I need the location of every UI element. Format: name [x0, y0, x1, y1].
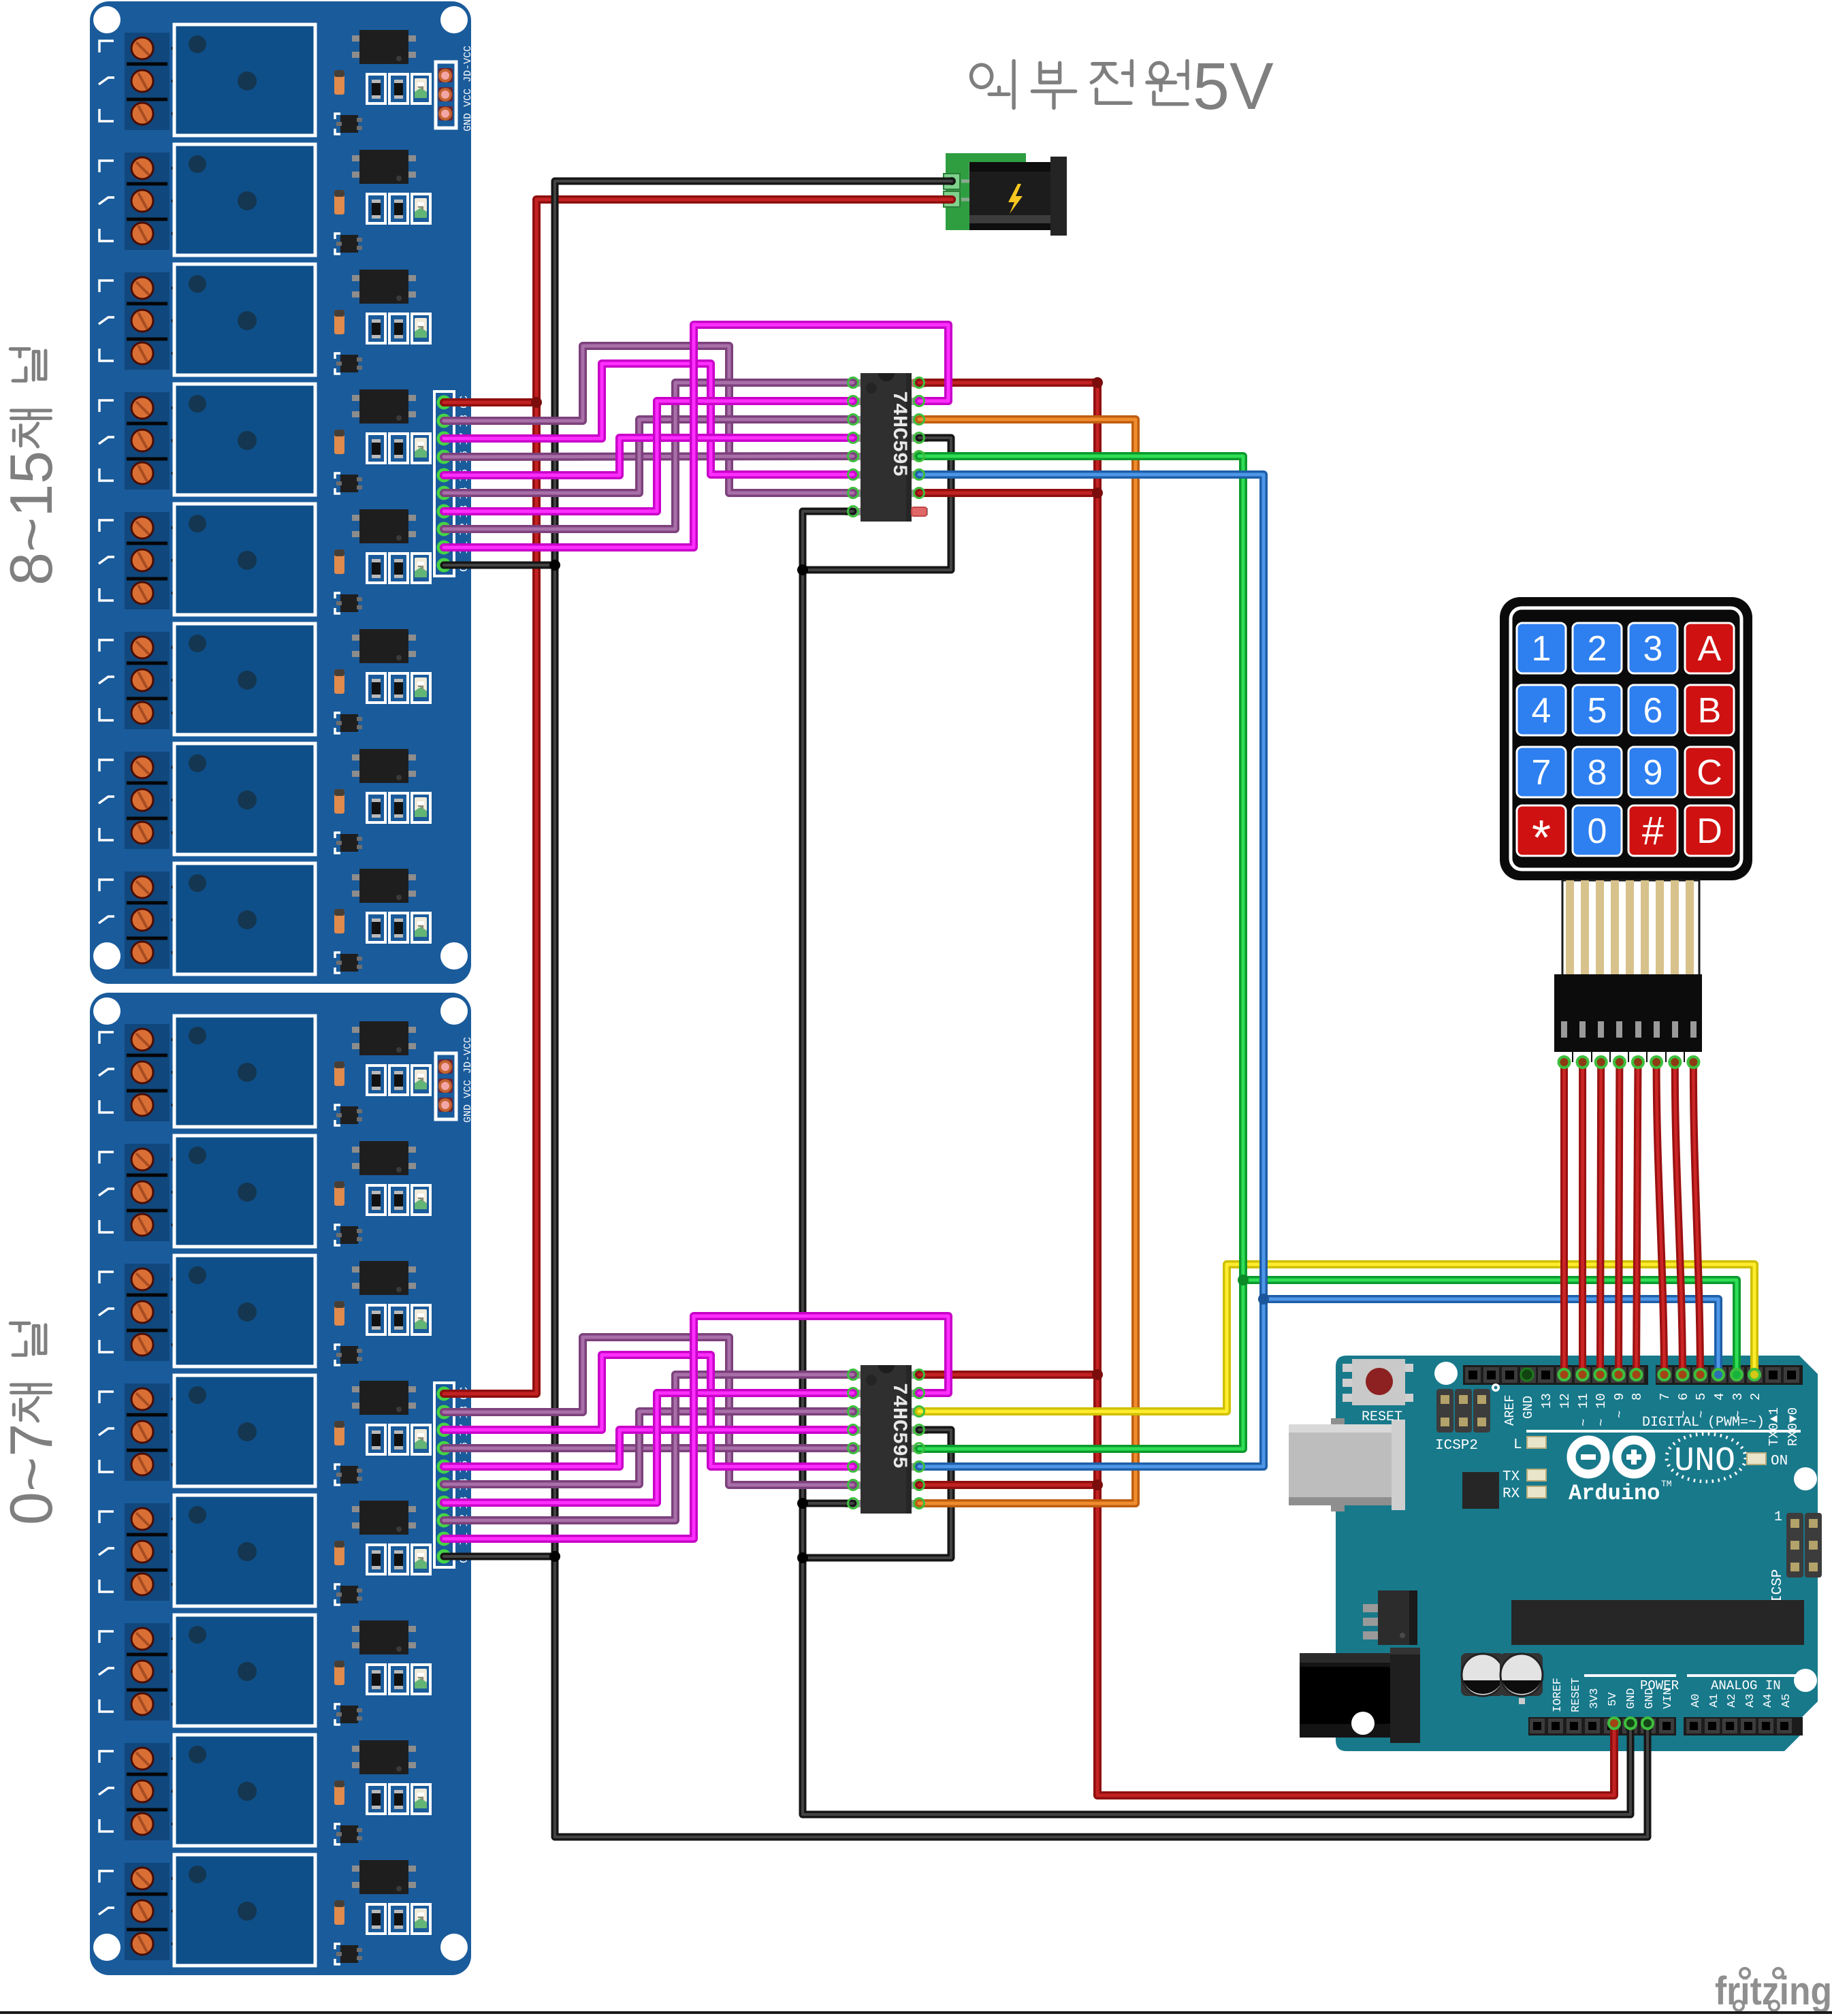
svg-text:4: 4: [1712, 1393, 1727, 1401]
svg-text:~: ~: [1577, 1419, 1592, 1426]
svg-text:3V3: 3V3: [1588, 1688, 1601, 1709]
shift register U1 74HC595 (bottom): [845, 1365, 928, 1514]
ICSP2 header: [1435, 1383, 1500, 1454]
wire net IC ground (black) shift registers to Arduino GND: [803, 438, 1630, 1814]
wire K2 IN8 to U2 Q7 (purple): [444, 346, 853, 493]
LED L TX RX: [1502, 1437, 1546, 1502]
wire net GND rail (black) from jack to relay GND pins and Arduino GND: [444, 181, 1648, 1837]
svg-text:A0: A0: [1690, 1694, 1703, 1708]
svg-text:11: 11: [1576, 1393, 1591, 1409]
svg-text:12: 12: [1558, 1393, 1573, 1409]
Arduino UNO board: [1289, 1356, 1822, 1751]
wire K1 IN3 to U1 Q2 (magenta): [444, 1393, 853, 1503]
wire serial cascade U1 Q7' to U2 DS (orange): [919, 419, 1136, 1503]
svg-text:~: ~: [1594, 1419, 1609, 1426]
wire K1 IN5 to U1 Q4 (magenta): [444, 1430, 853, 1467]
pin connection rings: [848, 378, 925, 1509]
bottom border line: [0, 2011, 1832, 2014]
svg-text:ON: ON: [1771, 1454, 1788, 1469]
svg-text:GND: GND: [1521, 1396, 1536, 1419]
keypad connector pin rings: [1559, 1057, 1699, 1068]
analog labels: [1687, 1676, 1803, 1708]
keypad pin connector: [1554, 974, 1702, 1062]
svg-text:ICSP2: ICSP2: [1435, 1438, 1478, 1454]
svg-text:DIGITAL (PWM=~): DIGITAL (PWM=~): [1642, 1415, 1765, 1430]
svg-text:ANALOG IN: ANALOG IN: [1711, 1678, 1781, 1693]
keypad wire 8 to Arduino pin5 (red): [1693, 1062, 1700, 1375]
svg-text:2: 2: [1748, 1393, 1763, 1401]
relay module board K1 (0~7 channel): [90, 993, 474, 1975]
title external power 5V (Korean): [971, 61, 1187, 108]
wire K1 IN2 to U1 Q1 (purple): [444, 1375, 853, 1520]
svg-text:8~15: 8~15: [0, 451, 65, 586]
keypad wire 5 to Arduino pin8 (red): [1636, 1062, 1638, 1375]
capacitor C2: [1500, 1653, 1543, 1704]
svg-text:3: 3: [1731, 1393, 1746, 1401]
svg-text:#: #: [1642, 809, 1664, 853]
keypad wire 1 to Arduino pin12 (red): [1560, 1062, 1568, 1375]
svg-text:1: 1: [1774, 1509, 1782, 1525]
junction IC VCC U1 pin10: [1092, 1479, 1103, 1490]
svg-text:~: ~: [1613, 1411, 1628, 1418]
keypad wire 2 to Arduino pin11 (red): [1579, 1062, 1586, 1375]
junction IC ground U2: [797, 564, 808, 575]
shift register U2 74HC595 (top): [845, 373, 928, 522]
wire K1 IN4 to U1 Q3 (purple): [444, 1411, 853, 1484]
svg-text:B: B: [1698, 691, 1722, 731]
svg-text:RESET: RESET: [1570, 1678, 1583, 1712]
svg-text:A1: A1: [1708, 1694, 1721, 1708]
junction GND rail / relay K2 GND: [549, 560, 560, 571]
svg-text:AREF: AREF: [1502, 1394, 1517, 1426]
svg-text:8: 8: [1630, 1393, 1645, 1401]
svg-text:Arduino: Arduino: [1569, 1481, 1660, 1506]
Arduino pin rings: [1559, 1369, 1761, 1729]
svg-text:8: 8: [1588, 753, 1607, 793]
svg-text:9: 9: [1612, 1393, 1627, 1401]
USB connector: [1289, 1418, 1405, 1511]
capacitor C1: [1461, 1653, 1504, 1696]
svg-text:10: 10: [1594, 1393, 1609, 1409]
power labels: [1552, 1676, 1679, 1712]
svg-text:7: 7: [1658, 1393, 1673, 1401]
svg-text:5V: 5V: [1607, 1692, 1620, 1706]
label 0~7 channel (Korean): [10, 1324, 50, 1421]
svg-text:L: L: [1513, 1437, 1522, 1453]
wire K2 IN5 to U2 Q4 (magenta): [444, 438, 853, 475]
wire K2 IN1 to U2 Q0 loop (magenta): [444, 325, 948, 547]
svg-text:GND: GND: [1625, 1688, 1638, 1709]
svg-text:9: 9: [1643, 753, 1663, 793]
svg-text:A2: A2: [1726, 1694, 1739, 1708]
svg-text:6: 6: [1643, 691, 1663, 731]
svg-text:A3: A3: [1744, 1694, 1757, 1708]
keypad wire 7 to Arduino pin6 (red): [1675, 1062, 1682, 1375]
digital header strip 2: [1656, 1365, 1803, 1385]
svg-text:5V: 5V: [1193, 49, 1274, 123]
junction IC VCC U2 pin16: [1092, 377, 1103, 388]
wire K1 IN1 to U1 Q0 loop (magenta): [444, 1316, 948, 1539]
svg-text:*: *: [1532, 811, 1551, 865]
svg-text:6: 6: [1676, 1393, 1691, 1401]
keypad wire 4 to Arduino pin9 (red): [1618, 1062, 1620, 1375]
svg-text:13: 13: [1539, 1393, 1554, 1409]
power barrel jack: [1300, 1648, 1420, 1743]
svg-text:TX0▲1: TX0▲1: [1767, 1407, 1782, 1446]
voltage regulator: [1363, 1590, 1417, 1645]
svg-text:1: 1: [1532, 629, 1552, 669]
wire K2 IN3 to U2 Q2 (magenta): [444, 401, 853, 511]
wire clock Arduino pin4 to both ICs SH_CP (blue): [919, 475, 1718, 1467]
ON LED: [1747, 1453, 1788, 1469]
keypad wire 3 to Arduino pin10 (red): [1600, 1062, 1601, 1375]
svg-text:5: 5: [1694, 1393, 1709, 1401]
junction green latch: [1238, 1275, 1249, 1285]
wire K1 IN7 to U1 Q6 (magenta): [444, 1355, 853, 1467]
junction IC VCC U2 pin10: [1092, 487, 1103, 498]
svg-text:A5: A5: [1780, 1694, 1793, 1708]
svg-text:RESET: RESET: [1362, 1409, 1402, 1425]
svg-text:3: 3: [1643, 629, 1663, 669]
DC power jack module: [944, 153, 1067, 236]
mounting holes: [1351, 1362, 1817, 1735]
svg-text:GND: GND: [1643, 1688, 1656, 1709]
svg-text:VIN: VIN: [1662, 1688, 1675, 1709]
crystal: [1462, 1472, 1499, 1509]
svg-text:7: 7: [1532, 753, 1552, 793]
svg-text:TM: TM: [1661, 1479, 1672, 1489]
relay module board K2 (8~15 channel): [90, 1, 474, 984]
wire K1 IN8 to U1 Q7 (purple): [444, 1337, 853, 1485]
junction IC ground U1 pin8: [797, 1498, 808, 1509]
junction IC ground U1 pin13: [797, 1552, 808, 1563]
svg-text:2: 2: [1588, 629, 1607, 669]
svg-text:C: C: [1697, 753, 1722, 793]
digital header strip 1: [1463, 1365, 1648, 1385]
keypad ribbon cable: [1562, 880, 1699, 976]
svg-text:A: A: [1698, 629, 1722, 669]
svg-text:RX0▼0: RX0▼0: [1786, 1407, 1801, 1446]
svg-text:0: 0: [1588, 812, 1607, 851]
svg-text:UNO: UNO: [1674, 1442, 1735, 1481]
junction IC VCC U1 pin16: [1092, 1369, 1103, 1380]
svg-text:TX: TX: [1502, 1469, 1520, 1485]
svg-text:ICSP: ICSP: [1770, 1569, 1786, 1603]
microcontroller IC: [1511, 1600, 1804, 1645]
svg-text:IOREF: IOREF: [1552, 1678, 1564, 1712]
wire serial data Arduino pin2 to U1 DS (yellow): [919, 1264, 1754, 1411]
fritzing watermark: [1715, 1968, 1832, 2013]
svg-text:0~7: 0~7: [0, 1424, 65, 1525]
reset button: [1343, 1359, 1413, 1425]
junction GND rail / relay K1 GND: [549, 1551, 560, 1562]
wire K2 IN7 to U2 Q6 (magenta): [444, 364, 853, 475]
label 8~15 channel (Korean): [10, 349, 50, 447]
ICSP header: [1770, 1509, 1822, 1603]
junction 5V rail / relay K2 VCC: [531, 397, 542, 408]
wire latch Arduino pin3 to both ICs ST_CP (green): [919, 456, 1737, 1449]
keypad wire 6 to Arduino pin7 (red): [1656, 1062, 1664, 1375]
junction blue clock: [1258, 1294, 1269, 1305]
wire K2 IN6 to U2 Q5 (purple): [444, 456, 853, 457]
svg-text:RX: RX: [1502, 1486, 1520, 1502]
svg-text:5: 5: [1588, 691, 1607, 731]
digital pin labels: [1502, 1393, 1801, 1446]
svg-text:D: D: [1697, 812, 1722, 851]
wire K2 IN4 to U2 Q3 (purple): [444, 419, 853, 493]
keypad 4x4 membrane: [1500, 597, 1752, 880]
svg-text:A4: A4: [1762, 1694, 1775, 1708]
Arduino logo: [1569, 1434, 1746, 1506]
wire net IC VCC (dark red) shift registers to Arduino 5V: [919, 383, 1614, 1795]
wire K2 IN2 to U2 Q1 (purple): [444, 383, 853, 529]
analog header: [1684, 1717, 1803, 1735]
power header: [1528, 1717, 1676, 1735]
wire K1 IN6 to U1 Q5 (purple): [444, 1444, 853, 1452]
wire net 5V rail (red) from jack to relay VCC pins: [444, 199, 952, 1394]
svg-text:4: 4: [1532, 691, 1552, 731]
